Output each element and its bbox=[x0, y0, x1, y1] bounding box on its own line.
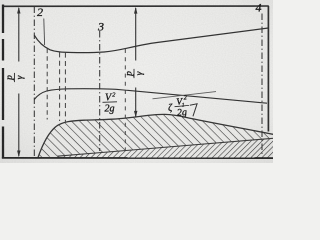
H1 hump top boundary bbox=[38, 114, 273, 157]
dimension arrow A (left, full head) bbox=[17, 7, 20, 157]
left wall chain line (section 1) bbox=[2, 5, 4, 158]
datum line (pipe axis, bottom) bbox=[2, 157, 273, 159]
wall wedge H2 (hatched lower band) bbox=[57, 138, 273, 158]
crossing thin segment bbox=[153, 92, 217, 99]
section line 4 (chain) bbox=[261, 14, 263, 156]
right border line bbox=[267, 6, 269, 132]
throat dashed line b bbox=[59, 52, 61, 121]
leader from label 2 to curve bbox=[43, 19, 46, 46]
throat dashed line c bbox=[64, 53, 66, 122]
label V^2/2g (throat velocity head) bbox=[103, 92, 118, 115]
top energy reference line bbox=[2, 5, 269, 7]
piezometric curve (upper) bbox=[34, 28, 268, 53]
paper background bbox=[0, 0, 273, 163]
label p/gamma (left, rotated) bbox=[5, 73, 26, 82]
throat dashed line a bbox=[46, 49, 48, 120]
section line 3 (chain) bbox=[99, 31, 101, 151]
H2 wedge top boundary bbox=[57, 138, 273, 156]
paper grain overlay bbox=[0, 0, 273, 163]
dimension arrow B (mid-right, to hump) bbox=[134, 7, 137, 118]
dashed line at diffuser start bbox=[124, 49, 126, 150]
loss region H1 (hatched hump, upper band) bbox=[38, 114, 273, 157]
label p/gamma (mid, rotated) bbox=[125, 69, 146, 78]
section line 2 (chain) bbox=[33, 7, 35, 157]
label zeta V1^2/2g (loss) with corner mark bbox=[167, 94, 198, 120]
lower curve (energy/velocity line) bbox=[34, 89, 267, 104]
